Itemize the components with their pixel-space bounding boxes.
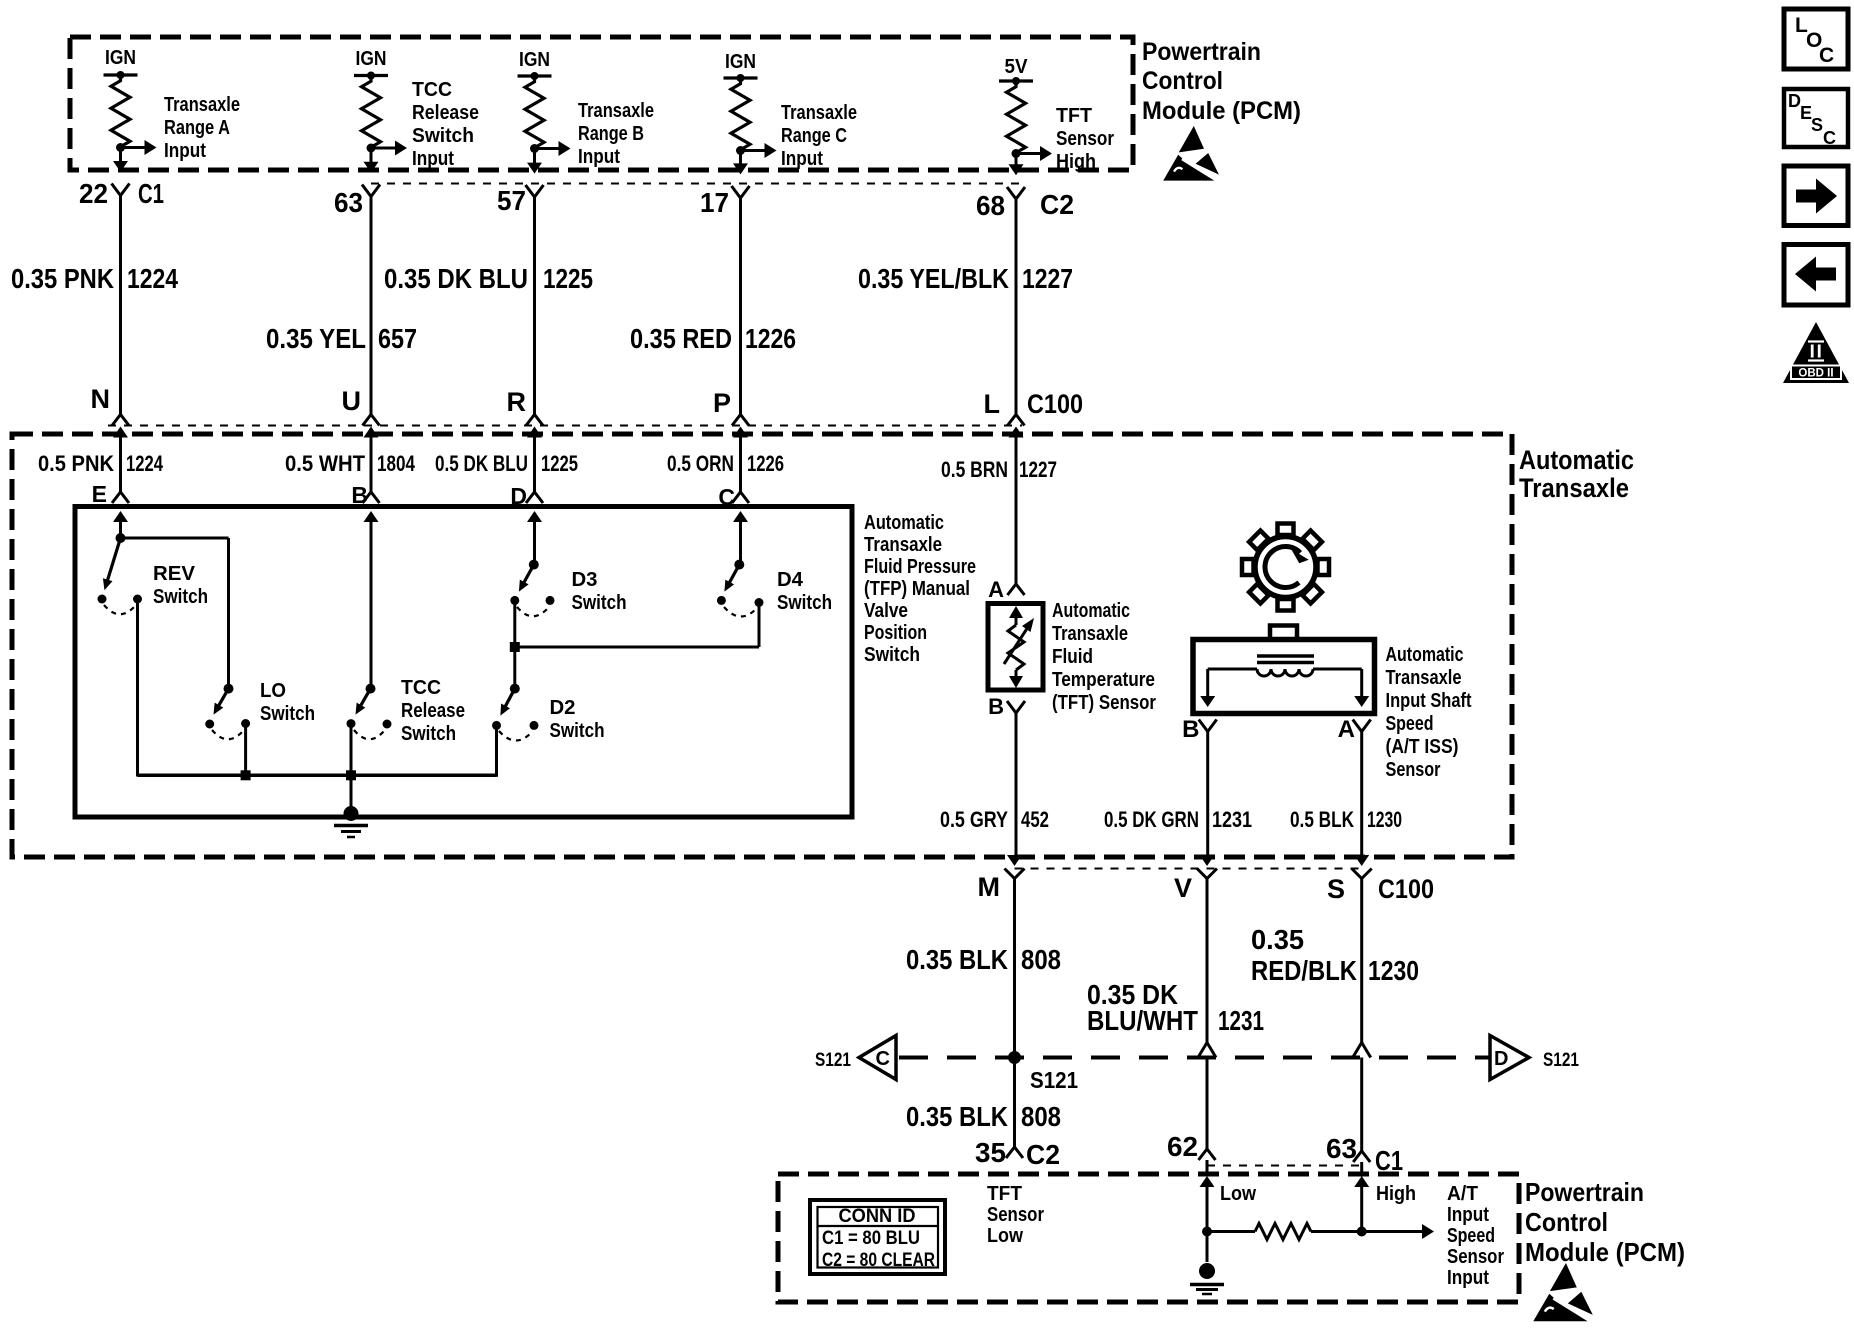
svg-text:C2: C2 [1026,1139,1060,1170]
svg-text:Automatic: Automatic [1052,600,1130,622]
svg-text:1231: 1231 [1212,807,1252,832]
svg-text:63: 63 [1326,1133,1357,1164]
svg-text:REV: REV [153,563,196,585]
wire crossover (S over S121 line) [1353,1043,1371,1058]
wire col3 to connector pin (male arrow) [527,149,542,174]
junction dot LO/bus [241,770,251,780]
wire 0.35 DK BLU/WHT (V down) [1206,879,1209,1150]
C1 interface dashed line (bottom) [1207,1165,1362,1167]
svg-text:1230: 1230 [1368,955,1419,986]
connector C100 pin S [1327,855,1372,904]
svg-text:IGN: IGN [105,47,136,69]
wire REV pivot to LO branch [121,537,229,540]
ESD warning symbol (top PCM) [1163,126,1222,183]
svg-text:0.35 BLK: 0.35 BLK [906,1101,1008,1132]
icon DESC box [1784,89,1848,148]
supply node IGN (col 1) [104,47,138,79]
svg-text:1227: 1227 [1019,457,1057,482]
connector C100 pin V [1174,855,1217,903]
svg-text:22: 22 [79,178,108,209]
svg-text:Automatic: Automatic [1519,445,1634,475]
supply node 5V (col 5) [999,56,1033,85]
connector C1 label [138,178,164,209]
svg-text:Release: Release [412,102,479,124]
wire label 0.35 DK BLU 1225 [384,263,593,294]
svg-text:Control: Control [1142,67,1223,95]
svg-text:1224: 1224 [126,451,164,476]
splice S121 dashed line [899,1056,1490,1060]
svg-text:Transaxle: Transaxle [864,534,942,556]
connector C2 label [1040,189,1074,220]
wire 0.35 BLK 808 (M down) [1013,879,1016,1148]
svg-text:D4: D4 [777,569,804,591]
svg-text:Low: Low [987,1225,1023,1247]
switch D3 (movable arm) [510,521,554,616]
svg-text:Transaxle: Transaxle [578,100,654,122]
svg-text:R: R [507,387,527,417]
svg-text:Range A: Range A [164,117,230,139]
off-page connector C (S121 left) [815,1036,896,1080]
svg-text:Fluid Pressure: Fluid Pressure [864,556,976,578]
gear icon (input shaft) [1242,524,1329,611]
A/T ISS sensor coil (inductor) [1200,656,1369,707]
switch LO (movable arm) [205,538,250,739]
TFT sensor pin A [988,577,1024,602]
svg-text:0.35 RED: 0.35 RED [630,323,732,354]
svg-text:1226: 1226 [747,451,784,476]
signal arrow (col 2) [371,79,479,170]
junction dot (High node) [1357,1227,1367,1237]
ground (PCM internal) [1190,1232,1224,1295]
svg-text:Input: Input [412,148,454,170]
wire 0.35 PNK 1224 (vertical) [119,196,122,416]
connector C1/C2 interface dashed line (top row) [371,183,1020,185]
wire label 0.35 RED 1226 [630,323,796,354]
C100 interface dashed line (bottom row) [1015,868,1362,870]
svg-text:Switch: Switch [777,592,832,614]
svg-text:Switch: Switch [260,703,315,725]
wire 0.35 RED 1226 (vertical) [739,196,742,416]
svg-text:TCC: TCC [401,677,441,699]
C100 interface dashed line (middle row) [108,425,1022,427]
wire 0.35 RED/BLK (S down) [1360,879,1363,1152]
wire col1 to connector pin (male arrow) [113,148,128,173]
svg-text:Transaxle: Transaxle [1386,667,1462,689]
connector pin 68 (female) [976,187,1025,221]
wire TCC left contact to ground [350,724,353,811]
svg-text:808: 808 [1021,944,1061,975]
svg-text:C: C [1823,128,1836,148]
svg-text:B: B [1182,716,1199,743]
svg-text:0.5 WHT: 0.5 WHT [285,451,366,476]
svg-text:Sensor: Sensor [1056,128,1114,150]
switch D4 (movable arm) [717,521,764,617]
wire label 0.5 DK GRN 1231 [1104,807,1252,832]
TFT sensor label [1052,600,1156,714]
resistor R3 Transaxle Range B pull-up [525,79,544,153]
svg-text:S121: S121 [1543,1050,1579,1071]
svg-text:Input: Input [781,148,823,170]
svg-text:S: S [1811,115,1823,135]
resistor (PCM internal, A/T ISS input) [1207,1224,1434,1240]
TFP switch label [864,512,976,666]
wire label 0.35 YEL 657 [266,323,417,354]
signal arrow (col 5) [1016,105,1114,173]
signal arrow (col 4) [741,102,858,170]
wire col5 to connector pin (male arrow) [1009,154,1024,176]
svg-text:0.35 DK BLU: 0.35 DK BLU [384,263,528,294]
svg-text:Module (PCM): Module (PCM) [1525,1237,1685,1267]
svg-text:0.5 ORN: 0.5 ORN [667,451,734,476]
wire col4 to connector pin (male arrow) [733,151,748,175]
svg-text:C2 = 80 CLEAR: C2 = 80 CLEAR [822,1250,935,1271]
svg-text:RED/BLK: RED/BLK [1251,955,1357,986]
wire label 0.5 PNK 1224 [38,451,164,476]
svg-text:1231: 1231 [1218,1005,1264,1036]
connector pin 35 (C2) [975,1137,1060,1170]
A/T Input Speed Sensor Input label [1447,1183,1504,1289]
wire label 0.5 GRY 452 [940,807,1049,832]
svg-text:C100: C100 [1378,874,1434,904]
svg-text:L: L [984,389,1001,419]
Automatic Transaxle title [1519,445,1634,503]
svg-text:Input: Input [164,140,206,162]
wire label 0.35 DK BLU/WHT 1231 [1087,979,1264,1036]
signal arrow (col 3) [535,100,655,168]
connector pin 63 (C1) [1326,1133,1403,1176]
signal arrow (col 1) [121,94,241,162]
svg-text:High: High [1056,151,1096,173]
svg-text:0.35 YEL: 0.35 YEL [266,323,366,354]
svg-text:IGN: IGN [725,51,756,73]
svg-text:452: 452 [1021,807,1049,832]
svg-text:Switch: Switch [401,723,456,745]
svg-text:Switch: Switch [864,644,920,666]
LO switch label [260,680,315,725]
wire 0.5 BRN vertical (to TFT sensor) [1015,436,1018,584]
connector pin 63 (female) [334,185,380,219]
svg-text:TFT: TFT [987,1183,1022,1205]
svg-text:68: 68 [976,190,1005,221]
svg-text:B: B [988,694,1004,719]
wire LO right contact down [244,724,247,776]
svg-text:D: D [1494,1048,1508,1070]
svg-text:657: 657 [378,323,417,354]
svg-text:Control: Control [1525,1207,1608,1237]
connector C100 pin U [342,386,380,492]
TFT sensor thermistor element [1004,606,1034,688]
svg-text:1230: 1230 [1367,807,1402,832]
connector C100 pin L [984,389,1025,492]
svg-text:808: 808 [1021,1101,1061,1132]
S121 label (at splice) [1030,1067,1078,1093]
connector C100 pin N [91,384,130,492]
switch REV (movable arm) [98,521,143,614]
wire D3/D4 bus [515,646,759,649]
Powertrain Control Module (PCM) title (top) [1142,38,1301,125]
svg-text:Automatic: Automatic [1386,644,1464,666]
PCM input wire Low (pin 62) [1200,1176,1257,1232]
wire label 0.35 PNK 1224 [11,263,178,294]
svg-text:Range B: Range B [578,123,644,145]
PCM input wire High (pin 63) [1354,1176,1416,1232]
svg-text:S: S [1327,874,1345,904]
svg-text:35: 35 [975,1137,1006,1168]
off-page connector D (S121 right) [1490,1036,1579,1080]
svg-text:Input: Input [578,146,620,168]
svg-text:1224: 1224 [127,263,178,294]
supply node IGN (col 2) [354,48,388,80]
svg-text:Sensor: Sensor [1447,1246,1504,1268]
junction dot TCC/bus [346,770,356,780]
svg-text:Low: Low [1220,1183,1256,1205]
TFP switch pin E [92,481,129,538]
wire label 0.5 DK BLU 1225 [435,451,578,476]
ground (TFP switch common) [334,806,368,837]
wire 0.35 YEL 657 (vertical) [370,196,373,416]
connector C100 pin M [978,855,1025,902]
svg-text:Position: Position [864,622,927,644]
svg-text:(TFT) Sensor: (TFT) Sensor [1052,692,1156,714]
svg-text:N: N [91,384,111,414]
icon back-arrow box [1784,245,1848,306]
icon OBD II triangle [1783,322,1849,383]
svg-text:62: 62 [1167,1131,1198,1162]
svg-text:D2: D2 [550,697,576,719]
svg-text:1227: 1227 [1022,263,1073,294]
TFT sensor pin B [988,694,1025,719]
wire 0.35 YEL/BLK 1227 (vertical) [1015,196,1018,416]
svg-text:V: V [1174,873,1192,903]
resistor R4 Transaxle Range C pull-up [731,81,750,155]
svg-text:C: C [1819,44,1834,67]
svg-text:Transaxle: Transaxle [781,102,857,124]
svg-text:C1: C1 [138,178,164,209]
connector C100 label (top) [1027,389,1083,419]
wire 0.35 DK BLU 1225 (vertical) [533,196,536,416]
svg-text:0.5 DK BLU: 0.5 DK BLU [435,451,528,476]
svg-text:0.5 PNK: 0.5 PNK [38,451,114,476]
svg-text:C1: C1 [1375,1145,1403,1176]
svg-text:IGN: IGN [356,48,387,70]
svg-text:CONN ID: CONN ID [839,1206,916,1227]
wire D3 left contact down [513,600,516,647]
wire label 0.35 YEL/BLK 1227 [858,263,1073,294]
svg-text:C1 = 80 BLU: C1 = 80 BLU [822,1228,920,1249]
svg-text:1804: 1804 [377,451,416,476]
ESD warning symbol (bottom PCM) [1533,1263,1596,1324]
svg-text:1226: 1226 [745,323,796,354]
svg-text:OBD II: OBD II [1798,368,1833,380]
svg-text:Module (PCM): Module (PCM) [1142,97,1301,125]
svg-text:Temperature: Temperature [1052,669,1155,691]
TCC Release Switch label [401,677,465,745]
splice S121 junction dot [1008,1051,1021,1064]
connector C100 pin R [507,387,544,492]
wire label 0.5 WHT 1804 [285,451,416,476]
D3 switch label [572,569,627,614]
ISS pin B [1182,716,1217,743]
svg-text:U: U [342,386,362,416]
svg-text:Release: Release [401,700,465,722]
svg-text:M: M [978,872,1001,902]
wire label 0.35 BLK 808 (lower) [906,1101,1061,1132]
connector pin 22 (female) [79,178,130,209]
svg-text:Sensor: Sensor [1386,759,1441,781]
TFT sensor box [988,604,1043,691]
svg-text:High: High [1376,1183,1416,1205]
svg-text:0.35 PNK: 0.35 PNK [11,263,114,294]
svg-text:Input Shaft: Input Shaft [1386,690,1472,712]
wire label 0.5 BRN 1227 [941,457,1057,482]
svg-text:57: 57 [497,185,526,216]
connector pin 17 (female) [700,186,750,218]
svg-text:IGN: IGN [519,49,550,71]
svg-text:Speed: Speed [1447,1225,1495,1247]
connector C100 pin P [713,388,749,492]
D4 switch label [777,569,832,614]
A/T ISS sensor box [1193,626,1375,714]
connector pin 57 (female) [497,185,544,216]
wire TFT B down to M [1015,712,1018,856]
wire ISS B down to V [1206,731,1209,857]
wire ISS A down to S [1360,731,1363,857]
wire label 0.5 BLK 1230 [1290,807,1402,832]
svg-text:Speed: Speed [1386,713,1434,735]
svg-text:17: 17 [700,187,729,218]
svg-text:P: P [713,388,731,418]
svg-text:Input: Input [1447,1267,1489,1289]
svg-text:LO: LO [260,680,286,702]
resistor R2 TCC Release Switch pull-up [362,79,381,153]
svg-text:Sensor: Sensor [987,1204,1044,1226]
svg-text:1225: 1225 [541,451,578,476]
svg-text:C100: C100 [1027,389,1083,419]
CONN ID table [810,1200,945,1274]
svg-text:Switch: Switch [572,592,627,614]
connector pin 62 (C1) [1167,1131,1216,1176]
Powertrain Control Module (PCM) title (bottom) [1525,1177,1685,1267]
wire D4 right contact down [758,603,761,648]
wire label 0.35 BLK 808 (upper) [906,944,1061,975]
svg-text:0.5 DK GRN: 0.5 DK GRN [1104,807,1199,832]
junction dot (Low node) [1202,1227,1212,1237]
PCM box (bottom) [778,1174,1519,1302]
svg-text:S121: S121 [1030,1067,1078,1093]
resistor R1 Transaxle Range A pull-up [111,78,130,152]
svg-text:63: 63 [334,187,363,218]
svg-text:C2: C2 [1040,189,1074,220]
svg-text:Transaxle: Transaxle [1519,473,1629,503]
svg-text:Switch: Switch [153,586,208,608]
wire REV right contact down [136,599,139,777]
wire col2 to connector pin (male arrow) [364,148,379,173]
svg-text:D3: D3 [572,569,598,591]
TFT Sensor Low label [987,1183,1044,1247]
svg-text:5V: 5V [1005,56,1029,78]
svg-text:Valve: Valve [864,600,908,622]
svg-text:Transaxle: Transaxle [164,94,240,116]
svg-text:0.5 BRN: 0.5 BRN [941,457,1008,482]
supply node IGN (col 3) [518,49,552,80]
D2 switch label [550,697,605,742]
switch D2 (movable arm) [492,647,539,741]
svg-text:S121: S121 [815,1050,851,1071]
icon LOC box [1784,9,1848,69]
svg-text:0.35: 0.35 [1251,924,1304,955]
wire label 0.5 ORN 1226 [667,451,784,476]
svg-text:A/T: A/T [1447,1183,1478,1205]
wire crossover (V over S121 line) [1198,1043,1216,1058]
REV switch label [153,563,208,608]
PCM box (top, Powertrain Control Module) [70,37,1133,170]
ISS pin A [1338,716,1371,743]
svg-text:0.5 BLK: 0.5 BLK [1290,807,1354,832]
junction dot D3/D4 bus [510,642,520,652]
TFP Manual Valve Position Switch box [75,507,852,818]
svg-text:TFT: TFT [1056,105,1092,127]
svg-text:(A/T ISS): (A/T ISS) [1386,736,1459,758]
TFP switch pin B [351,482,379,538]
svg-text:(TFP) Manual: (TFP) Manual [864,578,970,600]
svg-text:0.35 YEL/BLK: 0.35 YEL/BLK [858,263,1009,294]
wire D2 left contact down [495,725,498,776]
svg-text:A: A [988,577,1004,602]
wire bottom bus (switch common) [138,774,497,778]
wire label 0.35 RED/BLK 1230 [1251,924,1419,986]
svg-text:Automatic: Automatic [864,512,944,534]
supply node IGN (col 4) [724,51,758,82]
svg-text:Powertrain: Powertrain [1142,38,1261,66]
resistor R5 TFT Sensor High pull-up [1007,84,1026,158]
svg-text:0.35 BLK: 0.35 BLK [906,944,1008,975]
svg-text:Fluid: Fluid [1052,646,1093,668]
TFP switch pin D [510,483,543,538]
connector C100 label (bottom) [1378,874,1434,904]
A/T ISS sensor label [1386,644,1472,781]
svg-text:Switch: Switch [412,125,474,147]
switch TCC Release (movable arm) [347,521,392,739]
svg-text:Range C: Range C [781,125,847,147]
icon forward-arrow box [1784,166,1848,226]
svg-text:Transaxle: Transaxle [1052,623,1128,645]
svg-text:E: E [92,481,107,507]
svg-text:Input: Input [1447,1204,1489,1226]
svg-text:1225: 1225 [543,263,593,294]
svg-text:C: C [876,1048,890,1070]
svg-text:BLU/WHT: BLU/WHT [1087,1005,1198,1036]
TFP switch pin C [718,484,749,538]
svg-text:TCC: TCC [412,79,452,101]
svg-text:Powertrain: Powertrain [1525,1177,1644,1207]
Automatic Transaxle dashed box [12,434,1512,857]
svg-text:Switch: Switch [550,720,605,742]
svg-text:0.5 GRY: 0.5 GRY [940,807,1008,832]
